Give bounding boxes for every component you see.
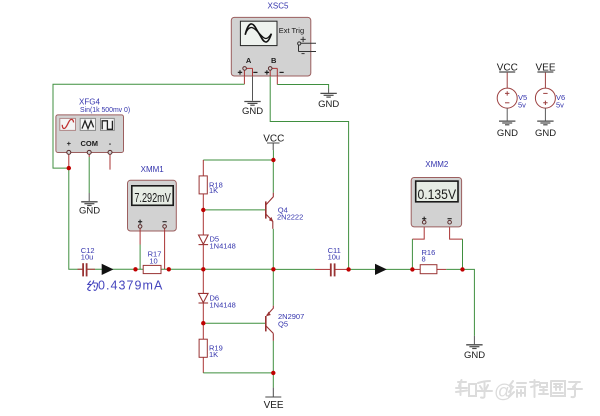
svg-text:XFG4: XFG4 [79,98,100,107]
svg-text:7.292mV: 7.292mV [134,190,171,205]
svg-text:0.135V: 0.135V [418,187,457,202]
svg-text:1K: 1K [209,186,218,195]
svg-text:+: + [67,139,72,148]
svg-text:XMM2: XMM2 [425,160,449,169]
svg-text:GND: GND [535,128,556,139]
svg-text:1K: 1K [209,350,218,359]
svg-text:Sin(1k 500mv 0): Sin(1k 500mv 0) [80,107,130,114]
svg-text:10u: 10u [328,252,341,261]
svg-text:XMM1: XMM1 [141,165,165,174]
svg-text:10: 10 [149,257,157,266]
svg-text:COM: COM [80,139,98,148]
svg-text:B: B [271,56,277,65]
svg-text:GND: GND [242,106,263,117]
svg-text:5v: 5v [518,101,526,110]
svg-text:GND: GND [497,128,518,139]
svg-text:GND: GND [79,206,100,217]
svg-text:0.4379mA: 0.4379mA [98,279,163,293]
svg-text:8: 8 [422,255,426,264]
svg-text:GND: GND [318,99,339,110]
svg-text:GND: GND [464,350,485,361]
svg-text:10u: 10u [81,252,94,261]
svg-text:2N2222: 2N2222 [277,213,303,222]
svg-text:A: A [246,56,252,65]
svg-text:VEE: VEE [264,400,284,411]
svg-text:1N4148: 1N4148 [210,241,236,250]
svg-text:@: @ [494,382,513,403]
svg-text:Ext Trig: Ext Trig [279,26,304,35]
svg-text:XSC5: XSC5 [268,1,289,10]
svg-text:Q5: Q5 [278,320,288,329]
svg-text:1N4148: 1N4148 [210,300,236,309]
svg-text:5v: 5v [556,101,564,110]
